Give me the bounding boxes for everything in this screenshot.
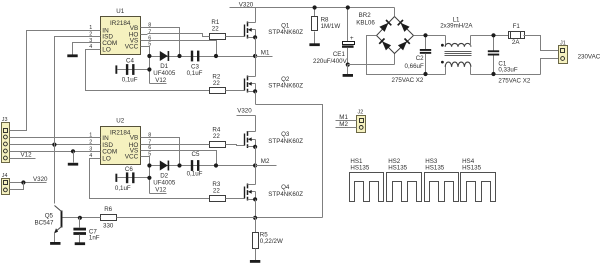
- transistor Q5 BC547: [61, 211, 63, 228]
- op-amp U1 IR2184 half-bridge driver: [101, 17, 141, 55]
- svg-text:Q4: Q4: [281, 184, 290, 191]
- svg-text:C5: C5: [192, 151, 200, 158]
- transistor Q1 STP4NK60Z: [243, 36, 245, 38]
- L1 phase dot bottom: [441, 61, 444, 64]
- svg-text:STP4NK60Z: STP4NK60Z: [268, 83, 303, 90]
- bridge diode bottom-right: [398, 41, 407, 50]
- svg-text:0,1uF: 0,1uF: [187, 171, 203, 178]
- connector J3: [2, 123, 10, 163]
- svg-text:J3: J3: [2, 117, 8, 123]
- U1 left pin labels and stubs: [94, 30, 101, 32]
- svg-text:U2: U2: [116, 117, 124, 124]
- wire J4 pin1 to V320 stub: [10, 182, 47, 184]
- wire R2 to Q2 gate: [226, 90, 243, 92]
- U2 right pin labels and stubs: [141, 137, 148, 139]
- svg-text:275VAC X2: 275VAC X2: [498, 78, 530, 85]
- capacitor C4 0.1uF: [115, 65, 117, 73]
- svg-text:275VAC X2: 275VAC X2: [392, 77, 424, 84]
- svg-text:M2: M2: [339, 121, 348, 128]
- wire M1 rail with D1 C3: [150, 56, 256, 58]
- svg-text:V12: V12: [155, 187, 167, 194]
- svg-text:22: 22: [212, 26, 219, 33]
- svg-text:F1: F1: [513, 23, 521, 30]
- wire J3 pin1 to U1 IN: [10, 31, 94, 131]
- svg-text:1nF: 1nF: [89, 235, 100, 242]
- capacitor C5 0.1uF: [191, 160, 193, 171]
- wire J3 pin5 V12 stub: [10, 158, 36, 160]
- resistor R8 1M/1W: [314, 8, 316, 17]
- svg-text:J2: J2: [358, 110, 364, 116]
- capacitor C6 0.1uF: [115, 174, 117, 182]
- op-amp U2 IR2184 half-bridge driver: [101, 127, 141, 165]
- connector J2: [357, 116, 366, 133]
- wire U1 LO to R2: [86, 50, 210, 91]
- node M2 stub at J2: [336, 127, 357, 129]
- U2 left pin labels and stubs: [94, 137, 101, 139]
- svg-text:D2: D2: [160, 172, 168, 179]
- wire M2 rail with D2 C5: [150, 165, 256, 167]
- svg-text:R6: R6: [104, 206, 112, 213]
- wire U1 VCC down to V12 flag: [148, 47, 150, 84]
- svg-text:0,1uF: 0,1uF: [187, 70, 203, 77]
- capacitor C3 0.1uF: [191, 51, 193, 62]
- wire U2 VCC down to V12 flag: [148, 157, 150, 194]
- wire U1 VS to M1 node: [148, 41, 217, 57]
- svg-text:330: 330: [103, 223, 114, 230]
- wire V320 top rail: [230, 7, 395, 9]
- fuse F1 2A: [509, 32, 525, 39]
- svg-text:BC547: BC547: [34, 219, 53, 226]
- svg-text:HS135: HS135: [462, 165, 481, 172]
- resistor R6 330: [101, 215, 117, 221]
- svg-text:2x39mH/2A: 2x39mH/2A: [440, 23, 473, 30]
- ground at C7: [75, 242, 85, 245]
- capacitor C1 0.33uF X2: [493, 36, 495, 51]
- wire Q2 source loop to shunt node: [256, 105, 323, 218]
- transistor Q2 STP4NK60Z: [243, 90, 245, 92]
- svg-text:J4: J4: [2, 173, 8, 179]
- svg-text:C4: C4: [126, 58, 134, 65]
- svg-text:C6: C6: [125, 166, 133, 173]
- svg-text:0,33uF: 0,33uF: [498, 67, 517, 74]
- svg-text:VCC: VCC: [125, 154, 139, 161]
- wire U1 HO through R1 to Q1 gate: [148, 34, 210, 37]
- svg-text:UF4005: UF4005: [153, 70, 176, 77]
- svg-text:CE1: CE1: [333, 51, 346, 58]
- resistor R1 22: [210, 34, 226, 40]
- svg-text:IR2184: IR2184: [110, 20, 131, 27]
- U1 right pin labels and stubs: [141, 27, 148, 29]
- svg-text:V320: V320: [33, 176, 48, 183]
- transistor Q4 STP4NK60Z: [243, 198, 245, 200]
- L1 core lines: [445, 51, 472, 53]
- svg-text:BR2: BR2: [359, 12, 372, 19]
- node V12 flag under D1: [150, 83, 167, 85]
- svg-text:22: 22: [213, 188, 220, 195]
- wire L1 to C1 top: [471, 35, 509, 37]
- node M2 label stub: [256, 165, 277, 167]
- capacitor C2 0.66uF X2: [425, 36, 427, 50]
- wire R3 to Q4 gate: [226, 198, 243, 200]
- wire U2 VS to M2 node: [148, 151, 217, 166]
- svg-text:IR2184: IR2184: [110, 129, 131, 136]
- svg-text:C2: C2: [416, 55, 424, 62]
- svg-text:STP4NK60Z: STP4NK60Z: [268, 138, 303, 145]
- svg-text:0,1uF: 0,1uF: [122, 76, 138, 83]
- bridge diode top-left: [379, 23, 388, 32]
- resistor R4 22: [210, 142, 226, 148]
- node M1 label stub: [256, 56, 273, 58]
- svg-text:VB: VB: [130, 135, 139, 142]
- svg-text:230VAC: 230VAC: [578, 53, 600, 60]
- wire R6 to shunt node: [80, 217, 101, 219]
- svg-text:J1: J1: [560, 41, 566, 47]
- wire U2 HO through R4 to Q3 gate: [148, 144, 210, 146]
- wire U1 ISD down to Q5 collector (shutdown net): [55, 37, 94, 204]
- ground at R8: [309, 43, 319, 46]
- node V12 flag under D2: [150, 193, 167, 195]
- wire bridge AC right to filter: [414, 35, 446, 37]
- wire node ISD net J3 pin3 to U2 ISD with junction: [10, 144, 94, 146]
- bridge diode top-right: [401, 23, 410, 32]
- svg-text:M1: M1: [339, 114, 348, 121]
- svg-text:22: 22: [213, 133, 220, 140]
- svg-text:220uF/400V: 220uF/400V: [313, 58, 348, 65]
- bridge rectifier BR2 KBL06: [377, 17, 414, 54]
- capacitor CE1 220uF/400V electrolytic: [347, 8, 349, 42]
- wire J3 pin2 to U2 IN: [10, 137, 94, 139]
- wire J3 pin4 COM to U2 COM: [10, 151, 94, 153]
- wire bottom line to J1 pin2: [541, 59, 559, 75]
- wire bridge AC left detour to bottom line: [367, 36, 446, 75]
- svg-text:STP4NK60Z: STP4NK60Z: [268, 191, 303, 198]
- svg-text:0,1uF: 0,1uF: [115, 185, 131, 192]
- wire F1 to J1 pin1: [524, 36, 559, 51]
- transistor Q3 STP4NK60Z: [243, 145, 245, 147]
- svg-text:IN: IN: [102, 135, 109, 142]
- svg-text:V320: V320: [237, 108, 252, 115]
- L1 bottom winding: [445, 67, 447, 75]
- svg-text:LO: LO: [102, 155, 111, 162]
- svg-text:0,66uF: 0,66uF: [405, 63, 424, 70]
- svg-text:M2: M2: [261, 158, 270, 165]
- svg-text:2A: 2A: [512, 39, 520, 46]
- wire J4 pin2 loop to junction: [10, 183, 24, 190]
- capacitor C7 1nF: [78, 216, 82, 220]
- wire U1 COM to ground: [73, 43, 101, 55]
- svg-text:UF4005: UF4005: [153, 179, 176, 186]
- svg-text:1M/1W: 1M/1W: [321, 23, 341, 30]
- svg-text:0,22/2W: 0,22/2W: [260, 238, 283, 245]
- svg-text:HS135: HS135: [425, 165, 444, 172]
- resistor R5 0.22/2W: [255, 218, 257, 233]
- resistor R2 22: [210, 88, 226, 94]
- svg-text:HS135: HS135: [350, 165, 369, 172]
- wire bridge minus to CE1: [348, 64, 395, 66]
- connector J4: [2, 179, 10, 195]
- wire L1 to C1 bottom: [471, 74, 541, 76]
- svg-text:HS135: HS135: [388, 165, 407, 172]
- L1 phase dot top: [441, 44, 444, 47]
- svg-text:LO: LO: [102, 46, 111, 53]
- ground at Q5 emitter: [50, 242, 60, 245]
- svg-text:22: 22: [213, 80, 220, 87]
- ground at U1 COM: [67, 54, 77, 57]
- svg-text:STP4NK60Z: STP4NK60Z: [268, 29, 303, 36]
- svg-text:Q3: Q3: [281, 131, 290, 138]
- svg-text:V12: V12: [21, 151, 33, 158]
- wire bridge plus to V320 rail: [394, 8, 396, 17]
- wire U2 VB bootstrap to D2 cathode node: [148, 138, 180, 166]
- svg-text:M1: M1: [261, 49, 270, 56]
- ground at R5: [250, 260, 260, 263]
- resistor R3 22: [210, 196, 226, 202]
- svg-text:+: +: [350, 35, 354, 42]
- svg-text:V12: V12: [155, 77, 167, 84]
- diode D2 UF4005: [160, 161, 168, 171]
- wire shunt node horizontal: [256, 217, 323, 219]
- svg-text:KBL06: KBL06: [356, 19, 375, 26]
- connector J1 mains: [559, 46, 568, 64]
- svg-text:VCC: VCC: [125, 44, 139, 51]
- svg-text:U1: U1: [116, 8, 124, 15]
- wire U1 VB bootstrap to D1 cathode node: [148, 28, 180, 57]
- wire U2 LO to R3: [90, 159, 210, 199]
- svg-text:D1: D1: [160, 63, 168, 70]
- diode D1 UF4005: [160, 51, 168, 61]
- ground at J3 COM net: [73, 152, 75, 163]
- bridge diode bottom-left: [382, 41, 391, 50]
- ground at CE1: [347, 65, 349, 75]
- node M1 stub at J2: [336, 120, 357, 122]
